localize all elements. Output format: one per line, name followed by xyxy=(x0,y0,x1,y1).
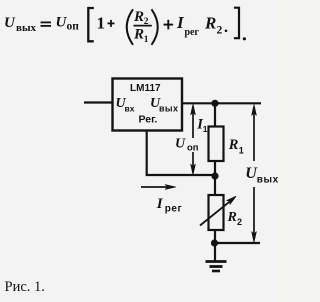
svg-text:R: R xyxy=(228,137,239,153)
svg-text:R: R xyxy=(133,27,144,43)
svg-text:2: 2 xyxy=(217,25,223,37)
wire R1 to node B xyxy=(214,161,216,176)
svg-text:вых: вых xyxy=(257,175,279,186)
R2 adjustment arrow xyxy=(200,196,236,225)
wire output Uвых to right rail xyxy=(182,102,261,104)
dimension arrow Uоп (double-headed, x=193) xyxy=(191,104,196,175)
ground stem xyxy=(214,243,216,261)
svg-text:I: I xyxy=(156,196,164,212)
node C junction dot xyxy=(211,239,218,246)
svg-text:U: U xyxy=(175,137,186,152)
svg-text:рег: рег xyxy=(165,204,182,215)
svg-text:вых: вых xyxy=(16,22,37,34)
svg-text:Рег.: Рег. xyxy=(139,114,158,126)
label Uоп (interrupts arrow line) xyxy=(186,138,199,152)
ground bars xyxy=(206,262,227,272)
resistor R2 (variable) xyxy=(209,195,224,230)
svg-text:LM117: LM117 xyxy=(130,83,161,94)
wire R2 to node C xyxy=(214,230,216,243)
resistor R1 xyxy=(209,127,224,162)
svg-text:U: U xyxy=(4,15,16,31)
wire node C to right (bottom rail) xyxy=(215,242,260,244)
svg-text:1: 1 xyxy=(97,13,106,32)
regulator U1 LM117 box xyxy=(113,79,183,131)
wire node A to R1 xyxy=(214,103,216,127)
node A junction dot xyxy=(211,100,218,107)
svg-text:оп: оп xyxy=(187,143,199,154)
svg-text:1: 1 xyxy=(239,145,244,155)
svg-text:2: 2 xyxy=(237,217,242,227)
svg-text:R: R xyxy=(133,9,144,25)
svg-text:вх: вх xyxy=(125,104,135,114)
svg-text:1: 1 xyxy=(203,124,208,134)
wire input to Uвх xyxy=(84,101,112,103)
dimension arrow Uвых upper segment xyxy=(252,105,257,162)
formula Uвых = Uоп[1 + (R2/R1) + Iрег·R2]. xyxy=(4,8,246,45)
wire Рег pin to node B xyxy=(147,131,215,176)
svg-text:Рис. 1.: Рис. 1. xyxy=(5,279,45,295)
svg-text:1: 1 xyxy=(144,35,149,45)
arrow Iрег xyxy=(141,185,176,190)
svg-text:оп: оп xyxy=(67,21,80,33)
svg-text:R: R xyxy=(227,210,237,225)
svg-text:R: R xyxy=(204,13,216,32)
svg-text:вых: вых xyxy=(159,104,178,114)
dimension arrow Uвых lower segment xyxy=(252,187,257,243)
node B junction dot xyxy=(211,172,218,179)
wire node B to R2 xyxy=(214,176,216,195)
svg-text:рег: рег xyxy=(185,27,200,38)
